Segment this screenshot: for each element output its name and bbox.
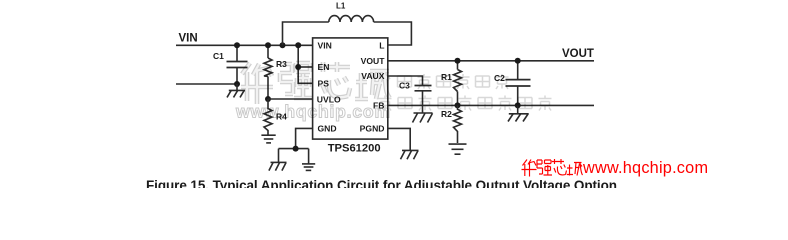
svg-text:VIN: VIN [179, 33, 198, 45]
op-amp U1 TPS61200 IC box [313, 38, 388, 139]
circuit layer [176, 16, 594, 171]
node C2 bottom junction [515, 102, 521, 108]
node GND junction [293, 146, 299, 152]
node C1 bottom junction [234, 81, 240, 87]
wire FB net [388, 104, 594, 106]
svg-text:VOUT: VOUT [361, 56, 386, 66]
svg-text:VOUT: VOUT [562, 48, 594, 60]
node L1 branch junction [280, 42, 286, 48]
red cheng glyph [567, 163, 583, 176]
watermark right line1 glyph row [398, 74, 509, 89]
node R1/R2/FB junction [455, 102, 461, 108]
watermark big cheng glyph [355, 71, 390, 100]
svg-text:TPS61200: TPS61200 [328, 143, 381, 155]
wire GND pin [296, 128, 313, 148]
wire EN/PS branch vertical [298, 45, 312, 83]
capacitor C1 [227, 45, 248, 84]
capacitor C3 [415, 86, 432, 114]
svg-text:www.hqchip.com: www.hqchip.com [582, 159, 708, 177]
red footer watermark [522, 159, 709, 177]
wire GND junction bar [279, 148, 309, 150]
watermark big qiang glyph [280, 63, 312, 98]
ground chassis under C2 [508, 105, 529, 121]
resistor R4 [264, 99, 272, 135]
ground chassis under C3 [413, 113, 433, 123]
watermark big xin glyph [318, 62, 350, 97]
ground earth right of GND junction [302, 149, 315, 171]
resistor R2 [454, 105, 462, 143]
svg-text:L: L [379, 40, 384, 50]
svg-text:GND: GND [318, 124, 337, 134]
svg-text:C2: C2 [494, 73, 505, 83]
watermark right line2 glyph row [379, 96, 552, 111]
wire VOUT net [388, 60, 594, 62]
node R3/R4/UVLO junction [265, 96, 271, 102]
wire L1 to L pin [374, 22, 412, 45]
svg-text:Figure 15. Typical Application: Figure 15. Typical Application Circuit f… [146, 178, 617, 188]
wire L1 branch up and across [283, 22, 329, 45]
node EN junction [295, 64, 301, 70]
node R3 top junction [265, 42, 271, 48]
red xin glyph [552, 159, 567, 175]
svg-text:L1: L1 [336, 2, 346, 11]
wire VIN rail [176, 44, 313, 46]
node C2 top junction [515, 58, 521, 64]
capacitor C2 [506, 61, 531, 106]
node C1 top junction [234, 42, 240, 48]
ground earth under R4 [261, 135, 275, 143]
wire VAUX to C3 [388, 76, 423, 86]
svg-text:R2: R2 [441, 109, 452, 119]
inductor L1 [329, 16, 374, 22]
node EN branch top [295, 42, 301, 48]
svg-text:www.hqchip.com: www.hqchip.com [235, 102, 390, 122]
watermark big gray url text [235, 102, 390, 122]
ground chassis left of GND junction [269, 149, 287, 171]
wire lower-left return rail [176, 83, 237, 85]
red qiang glyph [537, 160, 552, 175]
wire UVLO [268, 98, 313, 100]
svg-text:C1: C1 [213, 51, 224, 61]
ground chassis under PGND [401, 150, 419, 159]
ground earth under R2 [449, 144, 467, 154]
resistor R1 [454, 61, 462, 106]
wire PGND pin [388, 128, 410, 150]
node R1 top junction [455, 58, 461, 64]
wire EN [298, 66, 312, 68]
svg-text:VIN: VIN [318, 40, 332, 50]
red hua glyph [522, 160, 537, 177]
text layer [146, 2, 617, 193]
svg-text:PGND: PGND [360, 124, 385, 134]
resistor R3 [264, 45, 272, 99]
watermark big hua glyph [241, 63, 273, 104]
ground chassis under C1 [227, 84, 245, 97]
